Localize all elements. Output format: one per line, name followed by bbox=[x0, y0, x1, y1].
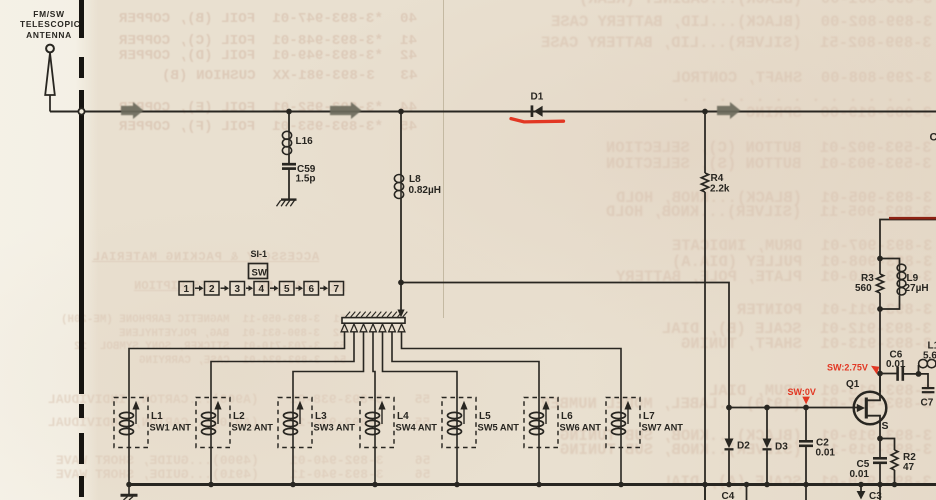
wire: Q1 drain up to C6 node bbox=[879, 374, 881, 393]
junction dot: Q1 source node bbox=[877, 436, 883, 442]
junction dot: R3/L9 top bbox=[877, 256, 883, 262]
svg-text:4: 4 bbox=[259, 284, 265, 295]
svg-text:Q1: Q1 bbox=[846, 379, 860, 390]
inductor L1 (SW1 ANT) bbox=[114, 398, 148, 448]
inductor L6 (SW6 ANT) bbox=[524, 398, 558, 448]
main antenna bus wire bbox=[50, 110, 936, 112]
capacitor C59 1.5p bbox=[282, 163, 296, 166]
junction dot: C6 / L10 / C7 node bbox=[916, 371, 922, 377]
wire stub below bus at Q1 source line bbox=[879, 486, 881, 500]
junction dot: R4 tap on bus bbox=[702, 109, 708, 115]
svg-text:47: 47 bbox=[903, 462, 915, 473]
inductor L3 (SW3 ANT) bbox=[278, 398, 312, 448]
junction dots on ground bus bbox=[126, 482, 132, 488]
svg-text:SW1 ANT: SW1 ANT bbox=[150, 423, 192, 433]
svg-text:C7: C7 bbox=[921, 398, 934, 409]
wire: L8 node to D2/D3/C2 node (right) bbox=[401, 283, 729, 408]
inductor L9 27uH (parallel with R3) bbox=[880, 259, 900, 265]
junction dot: R3/L9 bottom bbox=[877, 306, 883, 312]
switch selector contacts (7 triangles) bbox=[341, 324, 348, 332]
switch label SW box bbox=[249, 264, 268, 279]
svg-text:SW4 ANT: SW4 ANT bbox=[396, 423, 438, 433]
junction dot: L8 tap bbox=[398, 109, 404, 115]
svg-text:2: 2 bbox=[209, 284, 215, 295]
wire: D2/D3/C2 node to Q1 gate bbox=[729, 407, 862, 409]
ground symbol under L1 bbox=[128, 486, 130, 495]
capacitor C4 (cut at bottom edge) bbox=[746, 486, 748, 500]
svg-text:2.2k: 2.2k bbox=[710, 184, 730, 195]
svg-text:SW6 ANT: SW6 ANT bbox=[560, 423, 602, 433]
signal flow arrow 3 bbox=[717, 102, 741, 119]
transistor Q1 (FET) bbox=[854, 392, 887, 425]
svg-text:L7: L7 bbox=[643, 411, 655, 422]
inductor L4 (SW4 ANT) bbox=[360, 398, 394, 448]
svg-text:0.01: 0.01 bbox=[850, 469, 870, 480]
junction dot: L16 tap bbox=[286, 109, 292, 115]
signal flow arrow 1 bbox=[121, 102, 144, 119]
inductor L8 0.82uH bbox=[400, 112, 402, 175]
svg-text:5: 5 bbox=[284, 284, 290, 295]
svg-text:SI-1: SI-1 bbox=[251, 249, 268, 259]
wire: source node to R2 bbox=[880, 439, 895, 451]
band switch SI-1 contact bar bbox=[342, 318, 405, 324]
svg-text:SW7 ANT: SW7 ANT bbox=[642, 423, 684, 433]
svg-text:6: 6 bbox=[309, 284, 315, 295]
svg-text:D1: D1 bbox=[531, 92, 544, 103]
svg-text:27µH: 27µH bbox=[905, 283, 929, 294]
svg-text:L16: L16 bbox=[296, 136, 314, 147]
svg-text:1: 1 bbox=[184, 284, 190, 295]
junction dot C2 top bbox=[803, 405, 809, 411]
inductor L16 bbox=[288, 112, 290, 132]
page fold dashed line (left) bbox=[79, 0, 84, 38]
hatching on switch bar bbox=[346, 312, 351, 317]
svg-text:SW:0V: SW:0V bbox=[788, 387, 816, 397]
svg-text:0.01: 0.01 bbox=[886, 359, 906, 370]
wire: contact 1 to L1 bbox=[129, 332, 345, 398]
label: FM/SW TELESCOPIC ANTENNA bbox=[20, 9, 78, 40]
svg-text:L4: L4 bbox=[397, 411, 409, 422]
wire: contact 4 to L4 bbox=[373, 332, 375, 398]
svg-text:SW: SW bbox=[252, 268, 267, 279]
svg-text:1.5p: 1.5p bbox=[296, 174, 316, 185]
ground (chassis) below C59 bbox=[281, 198, 297, 200]
resistor R2 47 bbox=[891, 450, 898, 470]
capacitor C2 0.01 bbox=[805, 408, 807, 441]
svg-text:560: 560 bbox=[855, 283, 872, 294]
svg-text:SW5 ANT: SW5 ANT bbox=[478, 423, 520, 433]
svg-text:SW2 ANT: SW2 ANT bbox=[232, 423, 274, 433]
band sequence boxes 1-7 bbox=[179, 282, 194, 296]
svg-text:C4: C4 bbox=[722, 491, 735, 500]
resistor R4 2.2k bbox=[704, 112, 706, 174]
wire: contact 3 to L3 bbox=[293, 332, 364, 398]
signal flow arrow 2 bbox=[330, 102, 362, 119]
svg-text:5.6: 5.6 bbox=[923, 351, 936, 362]
diode D1 on main bus bbox=[531, 105, 534, 117]
svg-text:L1: L1 bbox=[151, 411, 163, 422]
svg-text:L5: L5 bbox=[479, 411, 491, 422]
svg-text:SW:2.75V: SW:2.75V bbox=[827, 363, 868, 373]
wire stub below bus at R4 line bbox=[704, 486, 706, 500]
diode/cap C3 marker below bus bbox=[860, 486, 862, 491]
junction dot D3 top bbox=[764, 405, 770, 411]
node: antenna wire crossing fold line bbox=[78, 108, 84, 114]
inductor L10 5.6uH (cut at right edge) bbox=[918, 365, 920, 374]
svg-text:0.82µH: 0.82µH bbox=[409, 185, 441, 196]
wire stub below bus at C2 line bbox=[805, 486, 807, 500]
svg-text:D3: D3 bbox=[775, 442, 788, 453]
diode D3 bbox=[766, 408, 768, 439]
svg-text:L3: L3 bbox=[315, 411, 327, 422]
svg-text:S: S bbox=[882, 420, 889, 432]
inductor L2 (SW2 ANT) bbox=[196, 398, 230, 448]
svg-text:R4: R4 bbox=[711, 173, 724, 184]
resistor R3 560 bbox=[879, 293, 881, 309]
svg-text:L6: L6 bbox=[561, 411, 573, 422]
svg-text:3: 3 bbox=[235, 284, 241, 295]
svg-text:7: 7 bbox=[334, 284, 340, 295]
wire: L8 node down to band switch arrow bbox=[400, 283, 402, 311]
svg-text:C: C bbox=[930, 132, 936, 144]
antenna symbol: FM/SW telescopic bbox=[46, 45, 54, 53]
capacitor C7 (cut at right edge) bbox=[919, 374, 929, 388]
inductor L5 (SW5 ANT) bbox=[442, 398, 476, 448]
junction dot: drain / C6 node bbox=[877, 371, 883, 377]
capacitor C5 0.01 bbox=[879, 439, 881, 458]
capacitor C6 0.01 bbox=[880, 373, 897, 375]
wire: contact 7 to L7 bbox=[402, 332, 622, 398]
svg-text:0.01: 0.01 bbox=[816, 448, 836, 459]
diode D2 bbox=[728, 408, 730, 439]
svg-text:L2: L2 bbox=[233, 411, 245, 422]
bottom ground bus bbox=[128, 483, 936, 486]
wire: R3/L9 top to right edge bbox=[880, 220, 936, 259]
junction dot: L8 to band switch and D2 node bbox=[398, 280, 404, 286]
junction dot D2 top bbox=[726, 405, 732, 411]
inductor L7 (SW7 ANT) bbox=[606, 398, 640, 448]
wire: contact 6 to L6 bbox=[392, 332, 539, 398]
wire: C6 node up to R3/L9 bbox=[879, 309, 881, 374]
red marker line under D1 bbox=[511, 119, 564, 122]
svg-text:L8: L8 bbox=[409, 174, 421, 185]
wire: contact 2 to L2 bbox=[211, 332, 354, 398]
svg-text:D2: D2 bbox=[737, 441, 750, 452]
dark red marker line at top right bbox=[889, 217, 936, 220]
wire: contact 5 to L5 bbox=[383, 332, 458, 398]
svg-text:SW3 ANT: SW3 ANT bbox=[314, 423, 356, 433]
paper crease line (faint vertical) bbox=[443, 0, 445, 318]
